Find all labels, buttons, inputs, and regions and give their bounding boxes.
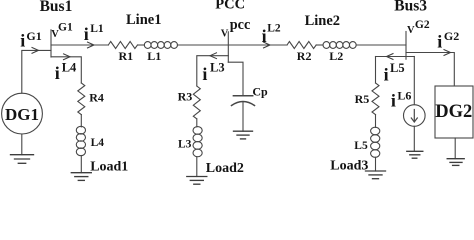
svg-text:Load3: Load3 [330, 158, 368, 173]
arrow iG1 [32, 48, 39, 54]
svg-text:L2: L2 [329, 49, 343, 63]
arrow iL2 [264, 42, 271, 48]
svg-text:V: V [407, 25, 415, 36]
generator DG1 [2, 93, 43, 134]
svg-text:Load2: Load2 [206, 161, 244, 176]
arrow iG2 [444, 50, 451, 56]
svg-text:L4: L4 [91, 137, 105, 149]
wire L5 to ground [375, 157, 377, 171]
ground Load1 [71, 173, 91, 181]
node Bus1 [50, 30, 52, 57]
ground Cp [234, 131, 253, 139]
ground DG2 [447, 159, 464, 166]
svg-text:L4: L4 [62, 61, 77, 75]
resistor R2 [287, 42, 316, 49]
svg-text:R5: R5 [355, 92, 370, 106]
svg-text:R3: R3 [178, 90, 193, 104]
arrow iL1 [88, 42, 95, 48]
wire DG1 to ground [21, 134, 23, 155]
svg-text:L6: L6 [397, 89, 411, 103]
svg-text:DG2: DG2 [435, 102, 472, 122]
wire Bus3 to DG2 [406, 53, 454, 87]
wire R2 to L2 [316, 44, 323, 46]
svg-text:PCC: PCC [215, 0, 245, 13]
resistor R3 [193, 86, 200, 119]
inductor L1 [144, 42, 177, 49]
wire PCC to capacitor branch [228, 62, 243, 96]
svg-text:Cp: Cp [252, 84, 268, 98]
ground DG1 [11, 155, 34, 164]
wire L1 to PCC [177, 44, 228, 46]
svg-text:Line1: Line1 [126, 12, 161, 28]
svg-text:i: i [202, 64, 207, 84]
arrow iL3 [210, 53, 217, 59]
wire R1 to L1 [138, 44, 145, 46]
svg-text:i: i [84, 24, 89, 44]
svg-text:G1: G1 [26, 29, 41, 43]
wire to R5 [375, 57, 377, 84]
svg-text:V: V [221, 28, 229, 39]
wire DG1 to Bus1 [22, 50, 51, 93]
svg-text:R1: R1 [119, 49, 134, 63]
inductor L3 [193, 127, 202, 157]
svg-text:Load1: Load1 [90, 159, 128, 174]
current source arrow [411, 110, 417, 123]
svg-text:L5: L5 [354, 140, 368, 152]
svg-text:DG1: DG1 [5, 105, 39, 124]
svg-text:i: i [384, 65, 389, 85]
svg-text:L3: L3 [210, 61, 225, 75]
svg-text:i: i [391, 91, 396, 111]
svg-text:L5: L5 [390, 61, 405, 75]
arrow iL4 [64, 54, 71, 60]
wire to current source [413, 57, 415, 105]
inductor L2 [323, 42, 356, 49]
svg-text:G1: G1 [58, 22, 73, 34]
inductor L5 [371, 127, 380, 157]
svg-text:Line2: Line2 [305, 13, 340, 29]
svg-text:L1: L1 [90, 23, 104, 35]
svg-text:i: i [20, 30, 25, 50]
svg-text:Bus1: Bus1 [40, 0, 73, 15]
svg-text:pcc: pcc [230, 17, 251, 33]
resistor R1 [108, 42, 137, 49]
wire R4 to L4 [80, 115, 82, 127]
svg-text:R2: R2 [297, 49, 312, 63]
wire R5 to L5 [375, 115, 377, 128]
wire R3 to L3 [196, 119, 198, 127]
wire L3 to ground [196, 157, 198, 177]
wire Cp to ground [242, 102, 244, 132]
svg-text:L1: L1 [147, 49, 161, 63]
ground current source [407, 151, 423, 158]
svg-text:G2: G2 [444, 29, 459, 43]
svg-text:i: i [262, 26, 267, 46]
node Bus3 [405, 32, 407, 60]
wire Bus1 to Load1 branch [51, 57, 81, 83]
svg-text:G2: G2 [415, 19, 430, 31]
svg-text:i: i [55, 63, 60, 83]
inductor L4 [76, 126, 85, 155]
wire main bus1 to R1 [51, 44, 108, 46]
wire current source to ground [413, 126, 415, 151]
wire Bus3 load branch [376, 56, 415, 58]
node PCC [227, 32, 229, 62]
svg-text:R4: R4 [89, 91, 104, 105]
current source iL6 [404, 105, 426, 127]
arrow iL5 [387, 54, 394, 60]
wire L4 to ground [80, 156, 82, 173]
resistor R4 [78, 83, 85, 115]
ground Load2 [187, 177, 207, 185]
svg-text:L2: L2 [267, 23, 281, 35]
wire DG2 to ground [454, 138, 456, 159]
resistor R5 [372, 83, 379, 115]
svg-text:Bus3: Bus3 [394, 0, 427, 15]
wire L2 to Bus3 [356, 44, 406, 46]
svg-text:L3: L3 [178, 138, 192, 150]
ground Load3 [366, 171, 386, 179]
wire PCC to Load2 branch [197, 56, 229, 86]
generator DG2 box [435, 86, 473, 138]
wire PCC to R2 [228, 44, 287, 46]
capacitor Cp [232, 96, 255, 106]
svg-text:i: i [437, 31, 442, 51]
